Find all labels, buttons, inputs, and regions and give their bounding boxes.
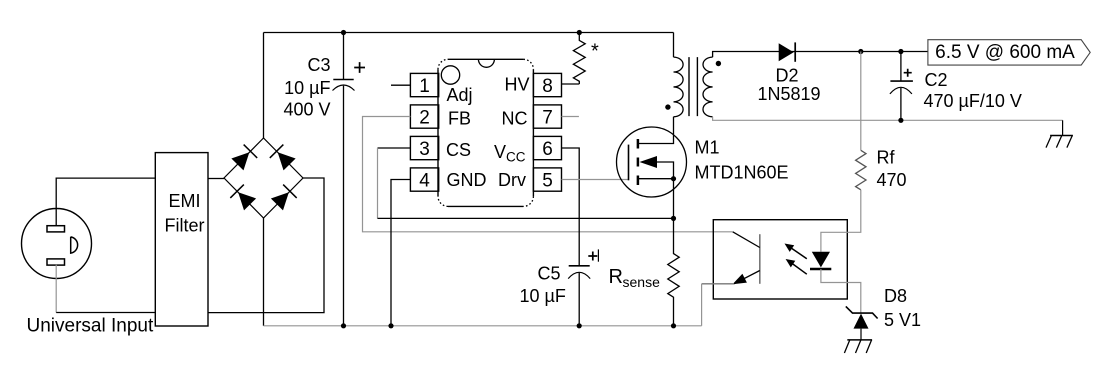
ground output chassis: [1046, 136, 1073, 148]
node dot bottom rail GND pin: [388, 323, 393, 328]
node dot top rail HV resistor: [577, 30, 582, 35]
svg-text:D8: D8: [884, 286, 907, 306]
LED light arrow 2: [786, 259, 807, 274]
wire pin3 CS vertical: [377, 148, 379, 218]
label D8 value: [884, 286, 921, 330]
capacitor C2: [890, 52, 913, 121]
LED light arrow 1: [785, 244, 807, 259]
svg-text:sense: sense: [623, 274, 661, 290]
label C2 value: [924, 70, 1022, 111]
svg-text:2: 2: [419, 107, 430, 128]
wire CS to sense node: [378, 217, 674, 219]
svg-text:5 V1: 5 V1: [884, 310, 921, 330]
node secondary phase dot: [716, 61, 721, 66]
bridge diode top-left: [231, 145, 258, 172]
resistor * startup: [573, 33, 599, 85]
wire pin6 VCC down through C5: [562, 148, 580, 266]
transformer core: [689, 57, 697, 116]
svg-text:Drv: Drv: [498, 170, 526, 190]
wire D8 to ground: [860, 329, 862, 340]
node dot CS junction: [671, 216, 676, 221]
svg-text:C2: C2: [925, 70, 948, 90]
svg-text:FB: FB: [448, 108, 471, 128]
svg-text:EMI: EMI: [168, 191, 200, 211]
diode D2: [779, 42, 796, 61]
wire MOSFET source to CS node: [673, 179, 675, 219]
label C5 value: [520, 264, 566, 307]
svg-text:Adj: Adj: [447, 85, 473, 105]
svg-text:1: 1: [419, 76, 430, 97]
zener diode D8: [846, 306, 878, 328]
node dot output C2 branch: [898, 49, 903, 54]
svg-text:10 µF: 10 µF: [520, 286, 566, 306]
wire top rail: [264, 32, 674, 34]
node dot bottom rail Rsense: [671, 323, 676, 328]
svg-text:CC: CC: [506, 149, 526, 164]
resistor Rf: [856, 150, 866, 190]
svg-text:HV: HV: [505, 74, 530, 94]
svg-text:5: 5: [542, 170, 553, 191]
svg-text:MTD1N60E: MTD1N60E: [695, 163, 789, 183]
wire bottom ground rail: [264, 325, 702, 327]
pin 2 box: [410, 105, 438, 128]
wire LED cathode to D8: [821, 269, 861, 313]
ground D8 chassis: [844, 340, 872, 353]
wire pin7 NC stub: [562, 116, 579, 118]
pin 7 box: [533, 105, 561, 128]
svg-text:Filter: Filter: [165, 215, 205, 235]
wire bridge top vertical: [263, 33, 265, 139]
wire EMI to bridge left vertex: [208, 178, 224, 180]
pin 1 box: [410, 73, 438, 96]
svg-text:Universal Input: Universal Input: [27, 316, 154, 337]
wire pin4 GND to rail: [391, 180, 410, 326]
svg-text:*: *: [591, 41, 599, 63]
wire pin1 Adj stub: [391, 84, 410, 86]
svg-text:D2: D2: [776, 65, 799, 85]
wire plug bottom vertical: [55, 265, 57, 313]
capacitor C3: [333, 33, 366, 326]
svg-text:10 µF: 10 µF: [284, 78, 330, 98]
wire to output ground: [1062, 120, 1064, 135]
wire pin8 HV to resistor: [562, 83, 580, 85]
transistor M1 MOSFET: [617, 117, 687, 197]
wire plug bottom to EMI: [56, 312, 156, 314]
wire EMI bottom to bridge right vertex: [208, 178, 324, 313]
wire pin5 Drv to gate: [562, 179, 629, 181]
wire plug top to EMI: [56, 178, 155, 226]
node dot MOSFET source: [671, 176, 676, 181]
EMI filter block: [155, 153, 208, 326]
node dot bottom rail C3: [341, 323, 346, 328]
optocoupler U2 box: [713, 220, 847, 299]
transformer T1 secondary: [703, 57, 713, 117]
svg-text:7: 7: [542, 107, 553, 128]
phototransistor of optocoupler: [702, 232, 760, 284]
label D2 value: [758, 65, 821, 103]
wire Rf to LED anode: [821, 190, 861, 252]
svg-text:1N5819: 1N5819: [758, 84, 821, 104]
svg-text:6.5 V @ 600 mA: 6.5 V @ 600 mA: [935, 42, 1075, 63]
svg-text:C3: C3: [307, 55, 330, 75]
LED of optocoupler: [810, 252, 831, 269]
pin 6 box: [533, 136, 561, 159]
svg-text:470: 470: [877, 170, 907, 190]
capacitor C5: [568, 249, 598, 325]
resistor Rsense: [668, 218, 679, 325]
wire Rf branch from output: [860, 52, 862, 151]
svg-text:CS: CS: [446, 140, 471, 160]
svg-text:NC: NC: [502, 109, 528, 129]
bridge diode bottom-left: [230, 185, 257, 212]
label C3 value: [283, 55, 330, 119]
label Rf value: [877, 148, 907, 191]
svg-text:C5: C5: [538, 264, 561, 284]
transformer T1 primary: [674, 33, 684, 117]
node dot output Rf branch: [858, 49, 863, 54]
bridge diode bottom-right: [270, 185, 297, 212]
pin 4 box: [410, 168, 438, 191]
pin 3 box: [410, 136, 438, 159]
svg-text:R: R: [609, 266, 623, 288]
output banner 6.5 V @ 600 mA: [928, 40, 1090, 65]
svg-text:400 V: 400 V: [283, 99, 330, 119]
svg-text:V: V: [494, 142, 506, 162]
svg-text:M1: M1: [695, 138, 720, 158]
label Rsense: [609, 266, 661, 290]
wire pin3 CS stub: [378, 147, 411, 149]
AC plug P1: [22, 209, 92, 279]
label M1: [695, 138, 789, 183]
pin 5 box: [533, 168, 561, 191]
wire secondary top to output: [713, 52, 928, 58]
bridge diode top-right: [270, 145, 297, 172]
node primary phase dot: [665, 104, 670, 109]
wire pin2 FB to optocoupler: [363, 117, 733, 232]
bridge rectifier diamond: [224, 138, 303, 218]
svg-text:8: 8: [542, 76, 553, 97]
node dot top rail C3: [341, 30, 346, 35]
pin 8 box: [533, 73, 561, 96]
svg-text:Rf: Rf: [877, 148, 896, 168]
node dot C2 bottom: [898, 118, 903, 123]
node dot bottom rail C5: [577, 323, 582, 328]
svg-text:GND: GND: [447, 170, 487, 190]
wire bridge bottom vertical: [263, 218, 265, 326]
svg-text:6: 6: [542, 139, 553, 160]
op-amp U1 regulator IC body: [438, 59, 533, 206]
svg-text:470 µF/10 V: 470 µF/10 V: [924, 91, 1022, 111]
wire secondary bottom return: [713, 117, 1063, 121]
svg-text:4: 4: [419, 170, 430, 191]
svg-text:3: 3: [419, 139, 430, 160]
label VCC: [494, 142, 526, 164]
wire emitter to ground rail: [701, 284, 703, 326]
